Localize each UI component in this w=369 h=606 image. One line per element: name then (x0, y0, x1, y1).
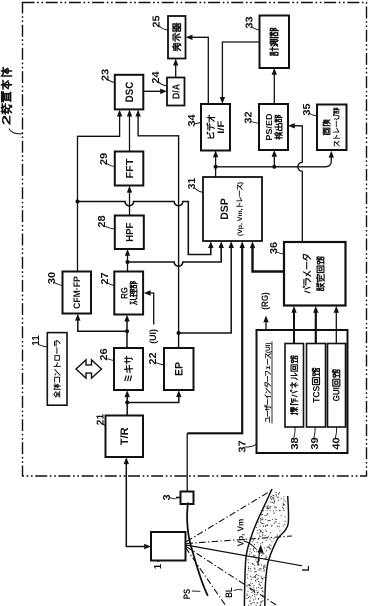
box 25 表示器 (display) (150, 15, 185, 58)
junction mixer output branch (125, 329, 129, 333)
svg-text:RG: RG (119, 287, 129, 299)
box 30 CFM·FP (46, 272, 91, 314)
box 29 FFT (98, 152, 144, 186)
blood vessel right wall (265, 496, 289, 606)
svg-text:37: 37 (236, 440, 248, 452)
wire CFM·FP trunk to DSC (78, 110, 123, 272)
wire 操作パネル回路 to 設定回路 (291, 306, 296, 344)
svg-text:(UI): (UI) (265, 342, 272, 353)
wire T/R branch to EP (127, 390, 181, 402)
label BL with leader (224, 587, 242, 598)
svg-text:28: 28 (96, 215, 108, 227)
svg-text:31: 31 (186, 178, 198, 189)
wire T/R to ミキサ (125, 390, 130, 415)
box 21 T/R (transmit/receive) (94, 414, 143, 457)
measuring line L (186, 545, 312, 571)
junction bus to PS/ED detector (272, 165, 276, 169)
wire PS/ED検出部 to 計測部 (272, 68, 277, 104)
svg-text:T/R: T/R (119, 427, 131, 445)
box 3 marker sensor (161, 492, 194, 505)
wire D/A to 表示器 (173, 59, 178, 78)
double arrow controller 11 to blocks (76, 360, 102, 378)
box 31 DSP (Vp, Vm, トレース) (186, 177, 262, 241)
label Vp, Vm with leader (236, 518, 256, 549)
box 37 user interface (UI) enclosure (236, 330, 347, 453)
label PS (182, 589, 200, 599)
wire パラメータ設定回路 to PS/ED検出部 (with hop) (288, 123, 302, 242)
flow direction arrow in vessel (258, 545, 264, 566)
wire TCS回路 to 設定回路 (313, 306, 318, 344)
svg-text:D/A: D/A (171, 83, 182, 99)
svg-text:(UI): (UI) (147, 329, 158, 344)
scan beam ray 1 (187, 490, 274, 542)
svg-text:HPF: HPF (124, 222, 136, 242)
wire bus branch to PS/ED検出部 (272, 150, 277, 167)
svg-text:23: 23 (99, 69, 111, 81)
box 33 計測部 (measurement unit) (243, 16, 289, 69)
box 24 D/A converter (150, 71, 185, 105)
svg-text:33: 33 (243, 16, 255, 28)
scan beam ray 3 (186, 547, 278, 606)
wire RG output branch to DSP (with hop) (128, 241, 224, 266)
box 28 HPF (96, 215, 144, 249)
svg-text:27: 27 (99, 272, 111, 284)
wire GUI回路 to 設定回路 (334, 306, 339, 344)
stub arrow UI to RG (labelled (RG)) (259, 292, 270, 330)
svg-text:CFM·FP: CFM·FP (72, 276, 83, 309)
svg-text:I/F: I/F (216, 121, 227, 134)
svg-text:25: 25 (150, 15, 162, 27)
svg-text:30: 30 (46, 272, 58, 284)
box 26 ミキサ (mixer) (98, 348, 143, 390)
svg-text:TCS: TCS (311, 386, 321, 403)
svg-text:BL: BL (224, 587, 234, 598)
box 22 EP (echo processor) (147, 348, 194, 390)
blood vessel left wall (244, 489, 272, 606)
wire DSC to D/A (143, 89, 167, 94)
svg-text:11: 11 (30, 335, 42, 346)
box 1 ultrasound probe (151, 532, 186, 569)
box 38 操作パネル回路 (operation panel circuit) (285, 344, 304, 450)
svg-text:FFT: FFT (124, 158, 136, 179)
wire probe to T/R (bidirectional) (124, 457, 151, 549)
svg-text:(RG): (RG) (259, 292, 270, 309)
box 23 DSC (99, 69, 143, 110)
wire mixer branch to CFM·FP (75, 314, 127, 332)
box 39 TCS回路 (TCS circuit) (307, 344, 326, 450)
box 11 全体コントローラ (system controller) (30, 333, 67, 406)
wire CFM trunk branch to DSP (with hops) (78, 202, 214, 255)
blood vessel stipple fill (246, 492, 285, 606)
svg-text:2: 2 (0, 114, 14, 125)
svg-text:38: 38 (289, 437, 301, 449)
junction CFM trunk branch (76, 200, 80, 204)
svg-text:24: 24 (150, 71, 162, 83)
svg-text:21: 21 (94, 414, 106, 425)
svg-text:L: L (301, 566, 312, 572)
scan beam ray 2 (187, 536, 293, 544)
box 32 PS/ED 検出部 (detector) (242, 104, 288, 150)
body surface arc (PS) (187, 503, 208, 596)
junction DSP output bus (214, 165, 218, 169)
svg-text:EP: EP (174, 362, 186, 376)
svg-text:35: 35 (301, 103, 313, 115)
label 2 装置本体 (0, 68, 23, 134)
scan beam ray 4 (186, 548, 227, 606)
svg-text:DSC: DSC (124, 82, 136, 103)
device body boundary (dash-dot frame) (23, 3, 367, 477)
wire EP branch to DSP (179, 241, 234, 333)
junction RG output branch (126, 260, 130, 264)
wire EP to DSC (135, 110, 178, 348)
svg-text:39: 39 (309, 437, 321, 449)
wire sensor 3 to DSP (187, 241, 245, 491)
svg-text:PS/ED: PS/ED (264, 114, 274, 141)
box 40 GUI回路 (GUI circuit) (328, 344, 346, 450)
wire パラメータ設定回路 to DSP (250, 241, 284, 271)
junction T/R output branch (125, 401, 129, 405)
svg-text:34: 34 (186, 114, 198, 126)
stub arrow UI into RG処理部 (labelled (UI)) (144, 290, 158, 344)
box 35 画像ストレージ部 (image storage) (301, 103, 347, 150)
svg-text:DSP: DSP (219, 198, 231, 220)
svg-text:): ) (237, 182, 244, 184)
wire RG処理部 to HPF (125, 249, 130, 272)
wire video I/F to 表示器 (186, 35, 209, 104)
svg-text:29: 29 (98, 153, 110, 165)
box 34 ビデオ I/F (video interface) (186, 104, 230, 151)
wire 計測部 to video I/F (220, 42, 260, 104)
svg-text:40: 40 (330, 437, 342, 449)
svg-text:1: 1 (152, 564, 164, 569)
wire ミキサ to RG処理部 (124, 315, 129, 348)
svg-text:GUI: GUI (332, 387, 342, 401)
svg-text:Vp, Vm: Vp, Vm (236, 518, 246, 546)
wire DSP to video I/F (213, 151, 218, 178)
svg-text:3: 3 (161, 494, 173, 500)
wire HPF to FFT (127, 186, 132, 216)
junction EP output branch (177, 331, 181, 335)
svg-text:(Vp, Vm,: (Vp, Vm, (237, 208, 244, 236)
box 36 パラメータ設定回路 (parameter setting circuit) (268, 242, 346, 306)
box 27 RG処理部 (range gate processing) (99, 272, 143, 315)
wire FFT to DSC (127, 110, 132, 152)
svg-text:PS: PS (182, 589, 192, 599)
wire DSP bus to 画像ストレージ部 (216, 151, 334, 167)
